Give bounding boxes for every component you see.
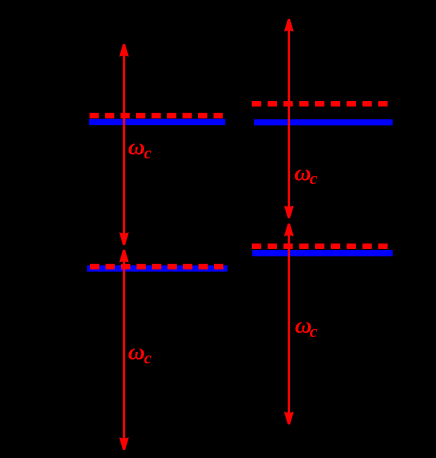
- svg-text:c: c: [310, 322, 318, 341]
- svg-text:ω: ω: [128, 340, 145, 366]
- svg-text:c: c: [310, 169, 318, 188]
- svg-text:ω: ω: [128, 135, 145, 161]
- svg-text:c: c: [144, 144, 152, 163]
- svg-text:c: c: [144, 349, 152, 368]
